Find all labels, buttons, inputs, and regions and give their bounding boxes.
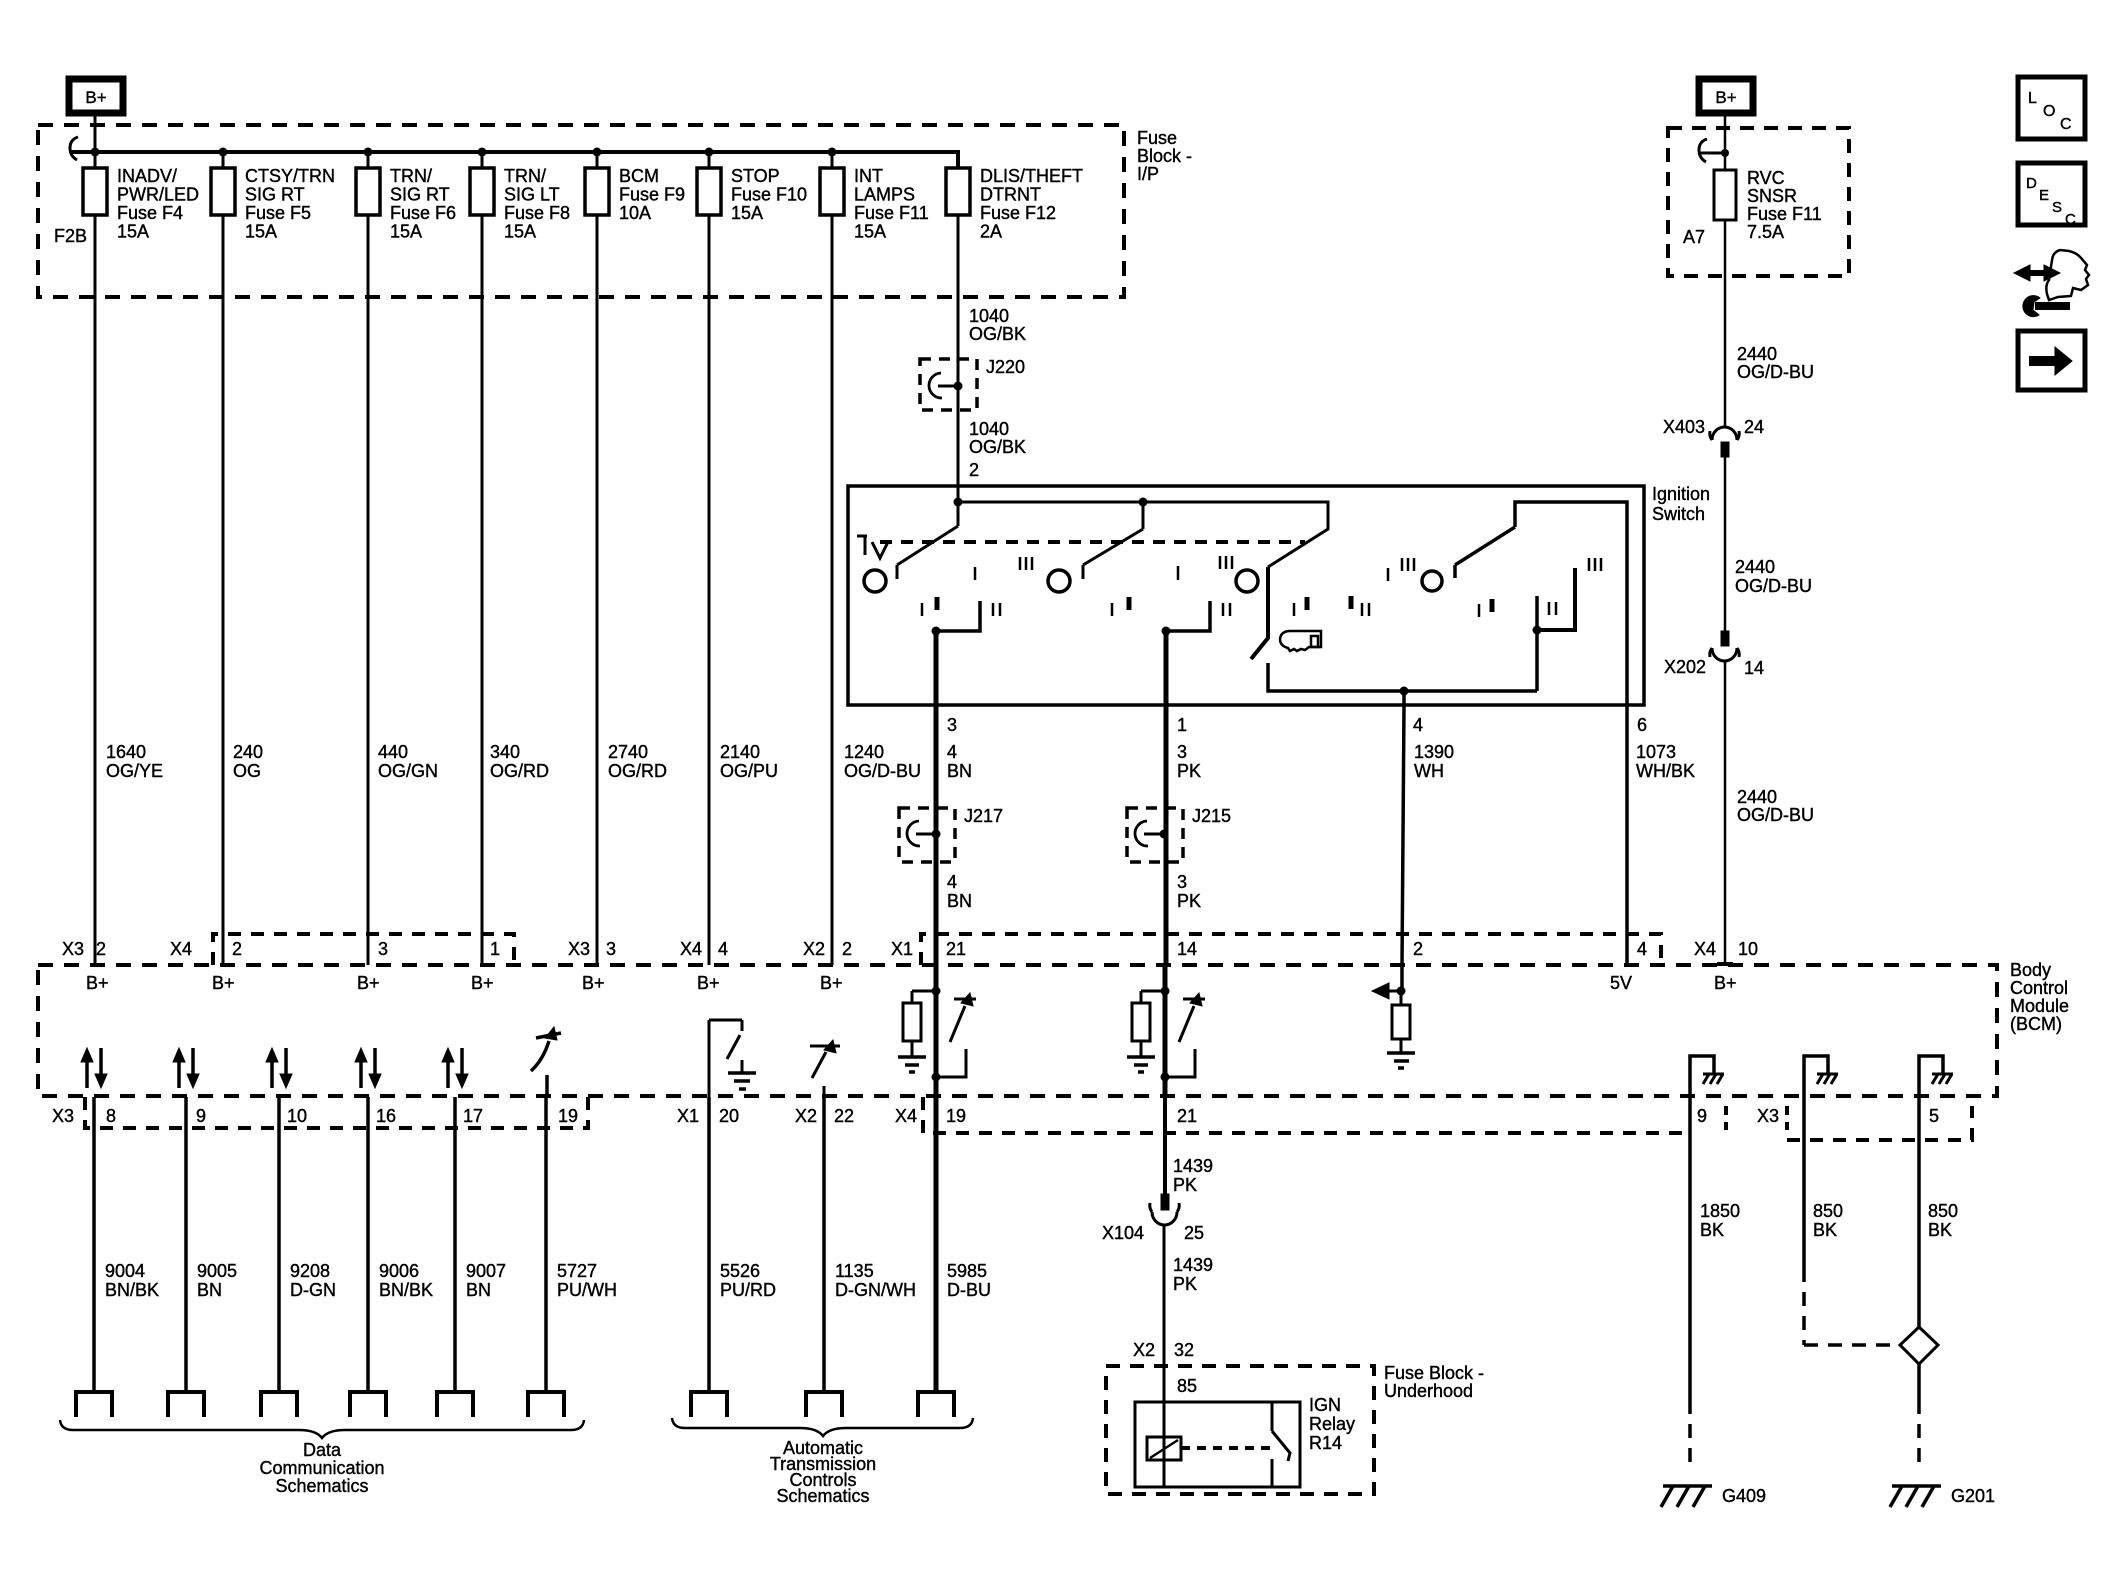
svg-text:7.5A: 7.5A [1747,222,1784,242]
svg-text:5985: 5985 [947,1261,987,1281]
BCM chassis ground at x=1690 [1690,1056,1714,1097]
wire fuse F4 down to BCM [94,215,97,965]
wire BCM to data-comm terminal circuit 9007 [453,1097,457,1392]
BCM IO arrows pin 2 [270,1060,274,1088]
svg-text:Fuse F4: Fuse F4 [117,203,183,223]
battery feed B+ symbol (left) [69,79,123,113]
svg-text:B+: B+ [1715,88,1736,107]
svg-text:2: 2 [842,939,852,959]
terminal 9208 [261,1392,297,1417]
svg-text:1850: 1850 [1700,1201,1740,1221]
position II marks section 3 [1349,596,1354,609]
svg-text:8: 8 [106,1106,116,1126]
svg-text:14: 14 [1177,939,1197,959]
svg-text:IGN: IGN [1309,1395,1341,1415]
svg-text:E: E [2039,187,2049,204]
wire BCM to data-comm terminal circuit 9004 [92,1097,96,1392]
svg-text:32: 32 [1174,1340,1194,1360]
wire BCM to data-comm terminal circuit 9005 [184,1097,188,1392]
svg-text:J215: J215 [1192,806,1231,826]
svg-text:OG/YE: OG/YE [106,761,163,781]
svg-text:SNSR: SNSR [1747,186,1797,206]
position II marks section 1 [992,603,995,616]
icon DESC box [2018,163,2085,225]
contact drop section 4 [1535,596,1539,691]
svg-text:PK: PK [1173,1175,1197,1195]
svg-text:2: 2 [96,939,106,959]
svg-text:I/P: I/P [1137,164,1159,184]
BCM switch branch at x=936 [950,999,976,1042]
IGN relay coil [1147,1437,1181,1460]
J217 connector symbol [907,821,920,846]
svg-text:BN/BK: BN/BK [105,1280,159,1300]
BCM internal ground pin 20 [741,1060,744,1072]
svg-text:Ignition: Ignition [1652,484,1710,504]
svg-text:1040: 1040 [969,306,1009,326]
svg-text:O: O [2043,103,2055,120]
svg-text:PK: PK [1173,1274,1197,1294]
svg-text:G409: G409 [1722,1486,1766,1506]
contact III leg section 4 [1537,568,1575,630]
svg-text:(BCM): (BCM) [2010,1014,2062,1034]
svg-text:SIG RT: SIG RT [245,185,305,205]
ignition switch rotor 2 [1048,570,1070,592]
wire BCM 9 to G409 [1688,1097,1692,1400]
fuse F10 [708,152,711,168]
svg-text:2: 2 [969,460,979,480]
svg-text:Relay: Relay [1309,1414,1355,1434]
brace data communication group [60,1420,584,1438]
svg-text:L: L [2028,90,2037,107]
svg-text:5526: 5526 [720,1261,760,1281]
svg-text:1040: 1040 [969,419,1009,439]
svg-text:9006: 9006 [379,1261,419,1281]
fuse block I/P dashed box [38,125,1124,297]
svg-text:Data: Data [303,1440,342,1460]
svg-text:INT: INT [854,166,883,186]
svg-text:340: 340 [490,742,520,762]
svg-text:14: 14 [1744,658,1764,678]
svg-text:BK: BK [1700,1220,1724,1240]
svg-text:X202: X202 [1664,657,1706,677]
svg-text:9: 9 [196,1106,206,1126]
fuse F4 [94,152,97,168]
wire BCM pin 21 through [934,965,939,1097]
position I mark section 2 [974,567,977,580]
icon pointer outline [2046,250,2089,300]
svg-text:X1: X1 [891,939,913,959]
BCM ground switch pin 20 [709,1020,742,1059]
position II marks section 4 [1548,602,1551,615]
svg-text:PK: PK [1177,761,1201,781]
svg-text:LAMPS: LAMPS [854,185,915,205]
terminal 5985 [918,1392,954,1417]
svg-text:2140: 2140 [720,742,760,762]
wire from B+ to bus [94,113,97,152]
svg-text:9: 9 [1697,1106,1707,1126]
svg-text:9007: 9007 [466,1261,506,1281]
svg-text:Fuse F11: Fuse F11 [854,203,929,223]
BCM resistor pin 2 [1400,991,1403,1005]
svg-text:BN: BN [466,1280,491,1300]
terminal 9005 [168,1392,204,1417]
svg-text:1: 1 [490,939,500,959]
svg-text:PK: PK [1177,891,1201,911]
svg-text:A7: A7 [1683,227,1705,247]
Body Control Module dashed box [38,965,1997,1096]
svg-text:Fuse F11: Fuse F11 [1747,204,1822,224]
BCM resistor branch at x=936 [912,990,936,993]
svg-text:1439: 1439 [1173,1255,1213,1275]
svg-text:OG/D-BU: OG/D-BU [1735,576,1812,596]
ignition switch box [848,486,1644,705]
BCM internal ground pin 2 [1387,1051,1415,1055]
wire fuse F10 down to BCM [708,215,711,965]
svg-text:Module: Module [2010,996,2069,1016]
in-line connection J220 dashed box [920,359,977,410]
svg-text:24: 24 [1744,417,1764,437]
wire BCM X3 to splice (dashed) [1802,1097,1806,1268]
ignition switch arm 2 [1083,502,1143,579]
svg-text:9208: 9208 [290,1261,330,1281]
svg-text:SIG LT: SIG LT [504,185,560,205]
terminal 9006 [350,1392,386,1417]
svg-text:9005: 9005 [197,1261,237,1281]
RVC SNSR dashed box [1668,128,1849,276]
svg-text:B+: B+ [212,973,235,993]
svg-text:Block -: Block - [1137,146,1192,166]
RVC feed hook [1699,139,1707,162]
ground G409 symbol [1661,1486,1712,1507]
svg-text:5727: 5727 [557,1261,597,1281]
svg-text:850: 850 [1813,1201,1843,1221]
wire BCM to data-comm terminal circuit 5727 [544,1097,548,1392]
bus wire B+ distribution [71,152,958,168]
position marks between section 3 and 4 [1387,568,1390,581]
key symbol [1280,631,1321,651]
relay contact [1271,1402,1274,1431]
svg-text:B+: B+ [471,973,494,993]
terminal 9004 [76,1392,112,1417]
svg-text:Control: Control [2010,978,2068,998]
svg-text:440: 440 [378,742,408,762]
BCM IO arrows pin 0 [85,1060,89,1088]
svg-text:4: 4 [718,939,728,959]
BCM switch branch at x=1165 [1179,999,1205,1042]
ignition switch arm 4 to pin 6 [1455,502,1627,705]
in-line connection J217 dashed box [899,808,955,862]
svg-text:X2: X2 [803,939,825,959]
wire splice to G201 [1917,1364,1921,1400]
wire fuse F12 down to ignition switch [957,215,960,486]
svg-text:BN: BN [947,761,972,781]
icon LOC box [2018,77,2085,139]
svg-text:4: 4 [947,742,957,762]
wire fuse F6 down to BCM [367,215,370,965]
svg-text:RVC: RVC [1747,168,1785,188]
svg-text:J217: J217 [964,806,1003,826]
BCM top connector outline box A [213,934,514,965]
contact marks section 4 [1478,604,1481,617]
svg-text:850: 850 [1928,1201,1958,1221]
bus feed hook [70,137,78,160]
terminal 5727 [528,1392,564,1417]
svg-text:R14: R14 [1309,1433,1342,1453]
svg-text:OG/BK: OG/BK [969,437,1026,457]
fuse F12 [957,152,960,168]
svg-text:1135: 1135 [835,1261,874,1281]
fuse RVC SNSR F11 [1724,116,1727,170]
BCM bottom connector outline box A [85,1097,588,1128]
BCM bottom connector brackets right [1724,1106,1728,1130]
svg-text:15A: 15A [731,203,763,223]
svg-text:DLIS/THEFT: DLIS/THEFT [980,166,1083,186]
svg-text:1640: 1640 [106,742,146,762]
svg-text:2: 2 [1413,939,1423,959]
contact marks section 2 [1111,603,1114,616]
position I mark section 3 [1177,566,1180,580]
svg-text:22: 22 [834,1106,854,1126]
svg-text:WH/BK: WH/BK [1636,761,1695,781]
BCM IO arrows pin 4 [446,1060,450,1088]
svg-text:3: 3 [1177,872,1187,892]
ignition switch rotor 3 (key) [1236,570,1258,592]
svg-text:D: D [2026,175,2037,192]
junction dots on bus [91,148,100,157]
fuse F5 [222,152,225,168]
svg-text:X1: X1 [677,1106,699,1126]
BCM IO arrows pin 3 [359,1060,363,1088]
J215 connector symbol [1135,821,1148,846]
svg-text:Schematics: Schematics [776,1486,869,1506]
svg-text:Body: Body [2010,960,2051,980]
wire fuse F11 down to BCM [831,215,834,965]
icon double arrow [2027,270,2047,276]
svg-text:Fuse Block -: Fuse Block - [1384,1363,1484,1383]
wire ignition pin 4 to BCM 2 [1402,705,1404,965]
svg-text:X4: X4 [170,939,192,959]
svg-text:B+: B+ [1714,973,1737,993]
svg-text:20: 20 [719,1106,739,1126]
BCM resistor branch at x=1165 [1141,990,1165,993]
wire BCM to data-comm terminal circuit 9208 [277,1097,281,1392]
fuse block underhood dashed box [1106,1366,1374,1494]
contact L section 1 [936,601,980,631]
svg-text:16: 16 [376,1106,396,1126]
svg-text:X2: X2 [1133,1340,1155,1360]
wire BCM 5 to G201 [1917,1097,1921,1327]
terminal 1135 [806,1392,842,1417]
ignition switch rotor 4 [1422,571,1442,591]
svg-text:15A: 15A [390,222,422,242]
key switch lower contact to bottom bus [1268,663,1537,691]
ignition switch rotor 1 [864,570,886,592]
svg-text:3: 3 [606,939,616,959]
BCM IO arrows pin 1 [177,1060,181,1088]
svg-text:BN: BN [947,891,972,911]
svg-text:X2: X2 [795,1106,817,1126]
BCM bottom connector outline box B [923,1097,1690,1133]
svg-text:OG/D-BU: OG/D-BU [844,761,921,781]
svg-text:X3: X3 [62,939,84,959]
svg-text:B+: B+ [85,88,106,107]
svg-text:Communication: Communication [259,1458,384,1478]
svg-text:BCM: BCM [619,166,659,186]
BCM output arrow pin 2 [1387,990,1401,993]
svg-text:X3: X3 [1757,1106,1779,1126]
svg-text:6: 6 [1637,715,1647,735]
svg-text:19: 19 [946,1106,966,1126]
wire BCM to transmission terminal circuit 1135 [822,1097,826,1392]
svg-text:3: 3 [947,715,957,735]
svg-text:X3: X3 [568,939,590,959]
BCM switch symbol pin 19 [531,1033,561,1071]
wire ignition pin 3 to BCM X1-21 [934,705,939,965]
svg-text:BK: BK [1813,1220,1837,1240]
svg-text:Fuse: Fuse [1137,128,1177,148]
svg-text:2A: 2A [980,222,1002,242]
svg-text:10: 10 [1738,939,1758,959]
svg-text:DTRNT: DTRNT [980,185,1041,205]
contact L section 2 [1166,601,1210,631]
svg-text:PU/RD: PU/RD [720,1280,776,1300]
svg-text:Switch: Switch [1652,504,1705,524]
svg-text:INADV/: INADV/ [117,166,177,186]
svg-text:25: 25 [1184,1223,1204,1243]
svg-text:F2B: F2B [54,226,87,246]
svg-text:15A: 15A [504,222,536,242]
position III marks section 4 [1588,558,1591,571]
contact marks section 3 [1293,603,1296,616]
fuse F11 [831,152,834,168]
IGN relay R14 box [1135,1402,1300,1487]
wire BCM to data-comm terminal circuit 9006 [366,1097,370,1392]
svg-text:TRN/: TRN/ [390,166,432,186]
svg-text:9004: 9004 [105,1261,145,1281]
position III marks section 3 [1219,556,1222,569]
svg-text:D-GN: D-GN [290,1280,336,1300]
svg-text:B+: B+ [357,973,380,993]
fuse F6 [367,152,370,168]
svg-text:STOP: STOP [731,166,780,186]
ground G201 symbol [1890,1486,1941,1507]
svg-text:240: 240 [233,742,263,762]
contact marks section 1 [921,603,924,616]
svg-text:BN: BN [197,1280,222,1300]
svg-text:OG/RD: OG/RD [608,761,667,781]
wire through relay coil [1163,1402,1166,1487]
svg-text:4: 4 [1637,939,1647,959]
fuse F9 [596,152,599,168]
wire ignition pin 4 inside box [1402,691,1406,705]
svg-text:4: 4 [947,872,957,892]
wire ignition pin 6 to BCM 4 [1625,705,1629,965]
svg-text:17: 17 [463,1106,483,1126]
svg-text:B+: B+ [697,973,720,993]
in-line connection J215 dashed box [1127,808,1183,862]
svg-text:85: 85 [1177,1376,1197,1396]
key switch moving contact [1251,567,1268,659]
svg-text:2: 2 [232,939,242,959]
svg-text:1390: 1390 [1414,742,1454,762]
svg-text:C: C [2065,211,2076,228]
svg-text:21: 21 [946,939,966,959]
terminal 5526 [691,1392,727,1417]
BCM top connector outline box B [921,934,1661,965]
svg-text:3: 3 [1177,742,1187,762]
svg-text:WH: WH [1414,761,1444,781]
svg-text:2440: 2440 [1737,344,1777,364]
svg-text:SIG RT: SIG RT [390,185,450,205]
svg-text:15A: 15A [854,222,886,242]
fuse F8 [481,152,484,168]
svg-text:C: C [2060,116,2072,133]
ignition switch arm 1 [897,502,958,579]
wire X104 to fuse block underhood [1163,1225,1166,1402]
svg-text:OG/GN: OG/GN [378,761,438,781]
svg-text:OG/PU: OG/PU [720,761,778,781]
svg-text:TRN/: TRN/ [504,166,546,186]
svg-text:3: 3 [378,939,388,959]
svg-text:BN/BK: BN/BK [379,1280,433,1300]
ignition internal supply bus [958,486,1328,567]
wire X403 to X202 [1724,457,1727,631]
J220 connector symbol [929,373,942,398]
wire BCM to transmission terminal circuit 5985 [934,1097,939,1392]
splice diamond [1900,1327,1938,1364]
svg-text:15A: 15A [117,222,149,242]
wire fuse F8 down to BCM [481,215,484,965]
wire fuse F9 down to BCM [596,215,599,965]
svg-text:15A: 15A [245,222,277,242]
icon arrow box [2018,331,2085,390]
svg-text:PU/WH: PU/WH [557,1280,617,1300]
svg-text:10A: 10A [619,203,651,223]
accessory position symbol [857,536,888,558]
position II marks section 2 [1222,603,1225,616]
wire BCM pin 14 through [1163,965,1168,1097]
svg-text:10: 10 [287,1106,307,1126]
svg-text:OG/D-BU: OG/D-BU [1737,805,1814,825]
svg-text:4: 4 [1413,715,1423,735]
svg-text:1073: 1073 [1636,742,1676,762]
svg-text:B+: B+ [820,973,843,993]
wire ignition pin 1 inside box [1164,631,1169,705]
svg-text:OG/RD: OG/RD [490,761,549,781]
svg-text:2440: 2440 [1737,787,1777,807]
wire RVC fuse down to X403 [1724,220,1727,427]
svg-text:5: 5 [1929,1106,1939,1126]
svg-text:OG/BK: OG/BK [969,324,1026,344]
svg-text:X4: X4 [895,1106,917,1126]
svg-text:OG/D-BU: OG/D-BU [1737,362,1814,382]
svg-text:Fuse F10: Fuse F10 [731,185,807,205]
svg-text:X4: X4 [1694,939,1716,959]
svg-text:1439: 1439 [1173,1156,1213,1176]
svg-text:1240: 1240 [844,742,884,762]
svg-text:X3: X3 [52,1106,74,1126]
brace automatic transmission group [672,1418,973,1436]
svg-text:X4: X4 [680,939,702,959]
wire ignition pin 1 to BCM 14 [1164,705,1169,965]
icon wrench [2035,302,2070,310]
svg-text:PWR/LED: PWR/LED [117,185,199,205]
BCM switch symbol pin 22 [810,1046,840,1078]
ignition position dashed line [880,540,1305,544]
wire BCM to transmission terminal circuit 5526 [707,1097,711,1392]
svg-text:Underhood: Underhood [1384,1381,1473,1401]
wire BCM pin 20 internal [708,1020,711,1097]
